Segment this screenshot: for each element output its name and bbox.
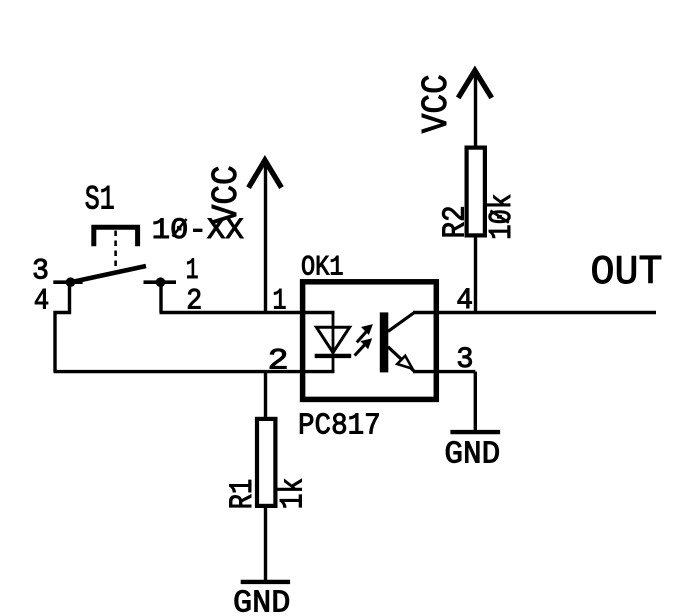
svg-text:10k: 10k: [485, 194, 520, 240]
svg-text:1: 1: [186, 253, 199, 287]
svg-text:2: 2: [268, 343, 289, 377]
svg-text:GND: GND: [233, 585, 290, 616]
svg-text:1: 1: [273, 283, 287, 317]
svg-text:VCC: VCC: [206, 165, 247, 224]
svg-text:1k: 1k: [275, 478, 312, 510]
svg-text:GND: GND: [444, 436, 500, 472]
svg-text:VCC: VCC: [416, 74, 457, 133]
svg-text:OK1: OK1: [301, 253, 344, 284]
svg-text:S1: S1: [85, 182, 115, 220]
svg-text:4: 4: [456, 283, 473, 317]
svg-text:R1: R1: [224, 479, 261, 510]
svg-text:2: 2: [186, 284, 202, 318]
svg-text:PC817: PC817: [298, 409, 381, 444]
svg-text:4: 4: [34, 284, 50, 318]
svg-text:3: 3: [32, 254, 49, 288]
svg-text:3: 3: [456, 342, 473, 376]
svg-text:R2: R2: [438, 205, 473, 238]
svg-text:OUT: OUT: [591, 250, 663, 296]
